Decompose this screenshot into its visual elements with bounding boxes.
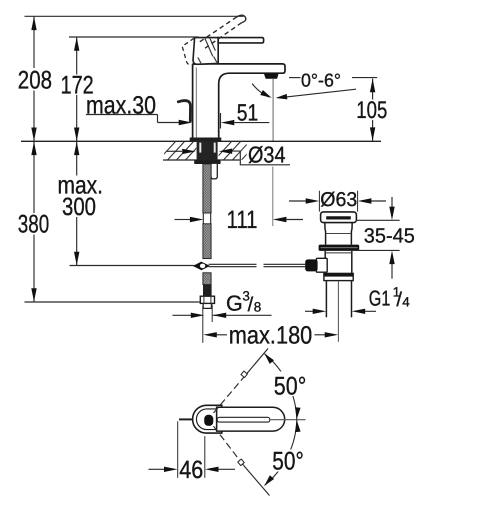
max.30 arrow [179,120,193,125]
35-45 extension lines [356,219,400,221]
pop-up pull rod knob [178,101,190,121]
svg-text:50°: 50° [272,447,304,475]
111 dimension line right [286,219,303,221]
172 extension line [69,36,199,38]
svg-text:105: 105 [356,97,387,124]
spout angle arrows [260,90,273,100]
O63 dimension line left [289,200,308,202]
0-6 degree leader line [289,77,301,79]
top view: faucet cap outline [193,405,222,433]
side hose stub [211,164,217,179]
max.180 left extension line [202,306,204,343]
svg-text:Ø34: Ø34 [248,142,286,168]
drain flange ring [319,245,360,251]
text background masks [16,68,390,479]
ray marker squares [241,371,247,377]
horizontal pop-up linkage rod [209,264,306,266]
105 vertical dimension line [372,79,374,141]
35-45 vertical dimension line [391,197,393,208]
111 arrows [190,217,204,222]
countertop section bottom line [163,159,240,161]
angle arc at aerator [252,84,268,97]
G1 1/4 dimension line [305,310,314,312]
braided supply hose lower [203,273,211,285]
mounting washer under counter [194,160,220,164]
max.30 leader: underline elbow and arrow line [86,114,158,116]
svg-text:max.180: max.180 [229,321,312,349]
51 dimension line [235,122,270,124]
svg-text:380: 380 [18,211,49,239]
max.180 dimension line [217,334,229,336]
top view: handle [204,415,213,426]
swivel ray lower dashed [214,426,244,465]
208/380 vertical dimension line [33,16,35,301]
hose end fitting block [203,285,212,297]
svg-text:51: 51 [237,99,258,125]
dimension lines layer [25,16,400,478]
faucet base plate [190,138,222,142]
aerator [264,73,279,78]
O34 leader left tail [166,150,182,152]
208 arrows [31,17,36,31]
drain body below flange [324,251,326,274]
pop-up rod coupling [193,262,210,271]
46 extension lines [177,421,179,478]
braided supply hose middle [203,224,211,259]
O63 arrows [306,198,320,203]
O34 arrows [182,149,196,154]
svg-text:300: 300 [62,193,96,221]
swivel arc lower [265,420,297,486]
111 right extension line (stream centerline) [272,167,274,227]
svg-text:G1: G1 [369,287,391,311]
drain locknut [324,273,353,280]
6 degree spout angle line [280,89,356,98]
svg-text:35-45: 35-45 [364,224,415,247]
46 dimension line [149,468,165,470]
max.180 arrows [203,332,217,337]
max.300 arrows [74,142,79,156]
handle facet strokes [198,38,217,63]
countertop hatching right [214,141,259,161]
172/max300 vertical dimension line [76,37,78,265]
braided supply hose upper [203,164,211,213]
top view: inner wall [196,409,216,430]
drain plug cap [321,212,357,223]
drain rod knob [305,259,317,271]
svg-text:46: 46 [179,456,203,484]
111 dimension line left [175,219,191,221]
drain side outlet [316,258,327,272]
max.300 bottom extension line [70,265,196,267]
top view: spout bar outline [217,407,285,431]
handle lever bar [218,38,263,43]
svg-text:0°-6°: 0°-6° [301,70,341,91]
handle body [193,38,218,65]
swivel arc arrows [262,352,274,364]
hose nut stub [203,303,211,308]
mounting shank through counter [197,142,218,160]
O63 dimension line right [369,200,386,202]
drain tailpipe [325,281,327,318]
46 arrows [164,467,178,472]
water stream line [272,79,274,141]
countertop section top line [21,140,381,142]
drain centerline [337,281,339,342]
G3/8 hose nut [200,296,214,303]
svg-text:/: / [248,294,254,316]
svg-text:4: 4 [402,295,410,310]
svg-text:max.30: max.30 [86,92,156,120]
swivel arc upper [265,354,297,420]
380 arrows [31,142,36,156]
arrowheads [31,17,394,488]
countertop hatching left [158,141,203,161]
380 bottom extension line [25,301,200,303]
dashed raised handle body outline [182,38,196,64]
O63 extension lines [318,191,320,212]
G1 1/4 arrows [313,309,327,314]
top view: pull rod stub [179,418,193,420]
172 arrows [74,37,79,51]
105 arrows [370,79,375,93]
svg-text:208: 208 [18,67,52,95]
swivel ray upper dashed [214,374,247,413]
faucet spout and body outline [193,64,285,138]
O34 leader right tail and label bracket [231,151,290,165]
svg-text:8: 8 [254,300,262,315]
top view: spout slot [217,417,270,422]
svg-text:G: G [226,292,243,316]
51 arrow [221,120,235,125]
35-45 arrows [389,207,394,221]
svg-text:Ø63: Ø63 [320,189,357,211]
svg-text:50°: 50° [274,372,307,400]
faucet body inner highlight line [195,68,197,138]
G3/8 dimension line [173,314,192,316]
drain neck [324,223,327,245]
smooth hose section [202,213,204,224]
svg-text:111: 111 [227,206,258,234]
G3/8 arrows [191,313,205,318]
51 extension line [220,113,222,129]
top extension line (208 level) [25,15,244,17]
dashed raised lever [200,15,246,48]
top view: spout centerline [270,419,306,421]
